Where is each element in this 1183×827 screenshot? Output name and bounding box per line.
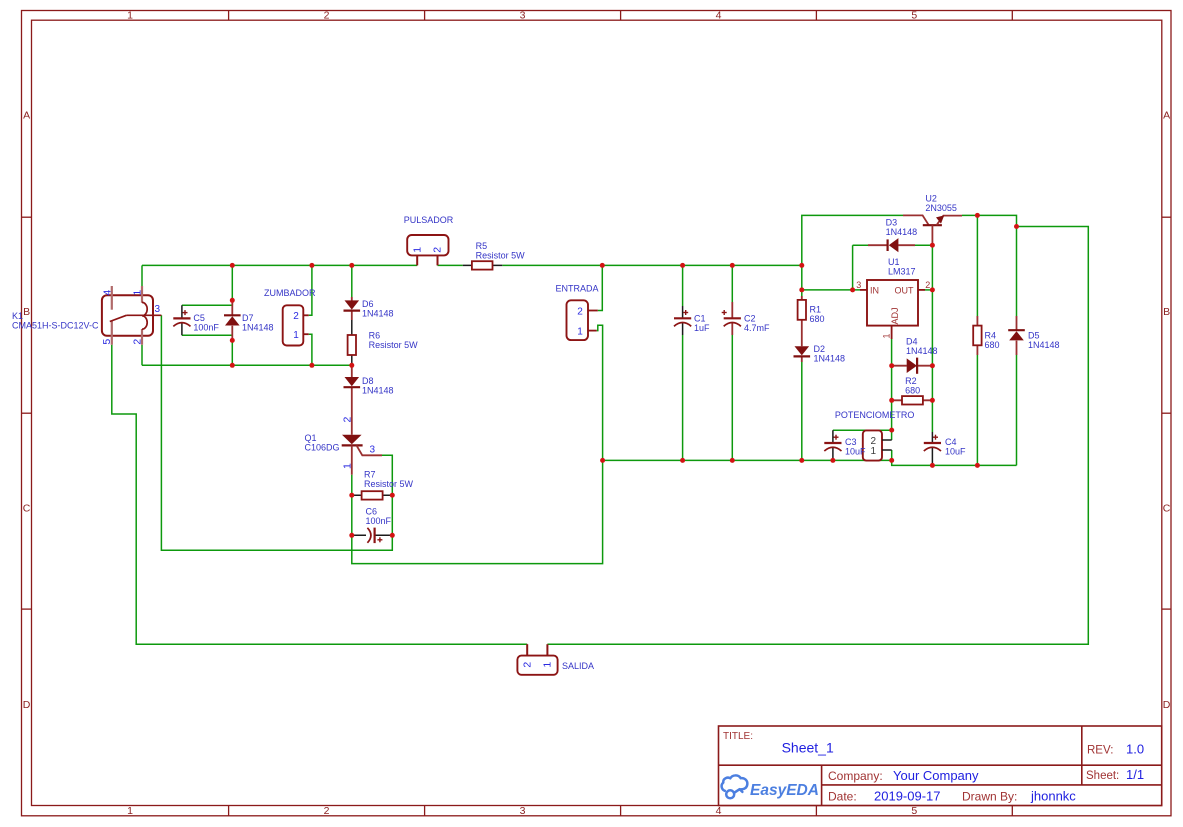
junction at 932.4,465.4: [930, 463, 935, 468]
svg-text:100nF: 100nF: [193, 323, 219, 333]
svg-text:4.7mF: 4.7mF: [744, 323, 770, 333]
svg-text:C6: C6: [366, 507, 378, 517]
svg-text:IN: IN: [870, 286, 879, 296]
resistor R1 labels: [810, 305, 825, 325]
svg-text:2N3055: 2N3055: [925, 203, 957, 213]
diode D7: [224, 315, 241, 325]
svg-text:B: B: [1163, 306, 1170, 318]
wire lower-right rail jog: [892, 460, 1017, 465]
connector SALIDA body: [517, 656, 557, 675]
diode D2 labels: [814, 344, 846, 364]
svg-text:ENTRADA: ENTRADA: [555, 283, 598, 293]
svg-text:2: 2: [293, 311, 299, 322]
svg-text:ADJ: ADJ: [890, 307, 900, 324]
resistor R4: [973, 326, 981, 346]
regulator U1 body: [867, 280, 918, 326]
svg-text:Date:: Date:: [828, 790, 857, 804]
capacitor C6 leads: [352, 534, 393, 536]
diode D5 labels: [1028, 331, 1060, 351]
svg-text:D: D: [1163, 699, 1171, 711]
junction at 932.4,365.7: [930, 363, 935, 368]
svg-text:R6: R6: [369, 331, 381, 341]
junction at 232.3,300.3: [230, 298, 235, 303]
wire U2 base node vertical: [931, 245, 933, 432]
svg-text:REV:: REV:: [1087, 745, 1113, 757]
svg-text:1N4148: 1N4148: [362, 309, 394, 319]
svg-text:R4: R4: [985, 331, 997, 341]
svg-text:Resistor 5W: Resistor 5W: [364, 479, 414, 489]
connector ENTRADA pin 1 stub: [588, 330, 597, 332]
svg-text:Your Company: Your Company: [893, 768, 979, 783]
svg-text:Q1: Q1: [305, 433, 317, 443]
svg-text:CMA51H-S-DC12V-C: CMA51H-S-DC12V-C: [12, 321, 99, 331]
connector ZUMBADOR pin 1 stub: [303, 333, 308, 335]
connector PULSADOR pin 2 stub: [437, 255, 439, 265]
svg-text:2: 2: [432, 247, 444, 253]
junction at 1016.5,226.5: [1014, 224, 1019, 229]
resistor R7 labels: [364, 470, 414, 490]
connector PULSADOR body: [407, 235, 448, 255]
transistor U2 base lead: [931, 225, 933, 245]
wire top rail left segment: [142, 264, 417, 266]
svg-text:1N4148: 1N4148: [886, 227, 918, 237]
capacitor C3 labels: [845, 437, 866, 457]
wire top rail between pulsador and R5: [438, 264, 463, 266]
wire relay pin1 drop: [141, 265, 143, 286]
junction at 891.7,460.4: [889, 458, 894, 463]
wire OUT pin stub: [925, 289, 932, 291]
wire zumbador pin2 riser: [309, 265, 312, 315]
svg-text:1: 1: [577, 326, 583, 337]
junction at 232.3,265.4: [230, 263, 235, 268]
svg-text:680: 680: [905, 385, 920, 395]
svg-text:2: 2: [577, 306, 583, 317]
svg-text:Resistor 5W: Resistor 5W: [369, 340, 419, 350]
wire D7 branch top: [231, 265, 233, 302]
transistor U2 emitter arrow: [936, 215, 944, 223]
svg-text:2: 2: [131, 339, 143, 345]
transistor U2 base bar: [923, 224, 942, 226]
svg-text:Sheet_1: Sheet_1: [782, 740, 834, 756]
wire upper rail to U2 collector: [802, 215, 903, 265]
svg-text:1N4148: 1N4148: [362, 386, 394, 396]
relay K1 pin 2: [141, 329, 143, 345]
svg-text:3: 3: [520, 10, 526, 22]
svg-text:C1: C1: [694, 314, 706, 324]
svg-text:4: 4: [101, 290, 113, 296]
svg-text:C4: C4: [945, 437, 957, 447]
junction at 602.6,460.4: [600, 458, 605, 463]
wire lower-left rail: [603, 459, 892, 461]
capacitor C3: [824, 435, 841, 451]
svg-text:5: 5: [911, 805, 917, 817]
svg-text:C5: C5: [193, 313, 205, 323]
svg-text:A: A: [1163, 110, 1170, 122]
wire C5 top link: [182, 300, 232, 305]
junction at 232.3,340.4: [230, 338, 235, 343]
resistor R1 leads: [801, 296, 803, 346]
svg-text:2: 2: [925, 280, 930, 290]
junction at 351.8,495.2: [349, 493, 354, 498]
thyristor Q1 triangle: [342, 435, 362, 444]
svg-text:D2: D2: [814, 344, 826, 354]
junction at 891.7,430.1: [889, 428, 894, 433]
diode D6 labels: [362, 299, 394, 319]
connector SALIDA pin 1 stub: [546, 644, 548, 655]
capacitor C2 leads: [731, 302, 733, 335]
connector ZUMBADOR body: [283, 305, 304, 345]
resistor R4 leads: [976, 316, 978, 355]
wire entrada pin2 riser: [598, 265, 603, 310]
diode D3: [888, 238, 899, 252]
diode D5 leads: [1016, 316, 1018, 355]
wire zumbador pin1 drop: [309, 334, 312, 365]
svg-text:1N4148: 1N4148: [242, 323, 274, 333]
junction at 732.3,460.4: [730, 458, 735, 463]
svg-text:D4: D4: [906, 336, 918, 346]
junction at 732.3,265.4: [730, 263, 735, 268]
junction at 977.4,215.4: [975, 213, 980, 218]
svg-text:1uF: 1uF: [694, 323, 710, 333]
svg-text:10uF: 10uF: [945, 447, 966, 457]
junction at 311.9,365.3: [309, 363, 314, 368]
svg-text:Company:: Company:: [828, 769, 883, 783]
junction at 801.8,265.4: [799, 263, 804, 268]
resistor R6: [348, 335, 356, 355]
svg-text:U2: U2: [925, 194, 937, 204]
svg-text:D8: D8: [362, 376, 374, 386]
regulator U1 labels: [888, 257, 916, 277]
resistor R6 leads: [351, 320, 353, 365]
svg-text:R7: R7: [364, 470, 376, 480]
svg-text:jhonnkc: jhonnkc: [1030, 789, 1076, 804]
diode D5: [1008, 330, 1025, 340]
junction at 351.8,265.4: [349, 263, 354, 268]
junction at 977.4,465.4: [975, 463, 980, 468]
wire C1 branch: [682, 265, 684, 460]
capacitor C5 leads: [181, 305, 183, 335]
svg-text:2: 2: [521, 662, 533, 668]
relay K1 switch contact: [110, 315, 127, 321]
resistor R7: [362, 491, 383, 499]
junction at 801.8,289.9: [799, 287, 804, 292]
resistor R7 leads: [352, 494, 393, 496]
junction at 392.3,495.2: [390, 493, 395, 498]
svg-text:Sheet:: Sheet:: [1086, 770, 1119, 782]
svg-text:C106DG: C106DG: [305, 443, 340, 453]
diode D8 leads: [351, 365, 353, 435]
svg-text:5: 5: [911, 10, 917, 22]
junction at 602.3,265.4: [600, 263, 605, 268]
wire IN node horizontal: [802, 289, 860, 291]
relay K1 labels: [12, 311, 99, 331]
svg-text:1: 1: [542, 662, 554, 668]
diode D4 leads: [892, 365, 933, 367]
regulator U1 pin 2 stub: [918, 289, 925, 291]
wire C2 branch: [731, 265, 733, 460]
capacitor C4 labels: [945, 437, 966, 457]
svg-text:POTENCIOMETRO: POTENCIOMETRO: [835, 410, 915, 420]
svg-text:Resistor 5W: Resistor 5W: [476, 251, 526, 261]
svg-text:LM317: LM317: [888, 266, 916, 276]
junction at 351.8,365.3: [349, 363, 354, 368]
svg-text:A: A: [23, 110, 30, 122]
svg-text:4: 4: [716, 10, 722, 22]
wire C3 top link: [833, 429, 892, 431]
svg-text:R5: R5: [476, 241, 488, 251]
svg-text:1: 1: [341, 463, 353, 469]
diode D6: [344, 300, 361, 310]
diode D3 labels: [886, 217, 918, 237]
diode D4: [907, 358, 917, 374]
svg-text:OUT: OUT: [895, 286, 915, 296]
svg-text:2: 2: [324, 10, 330, 22]
svg-text:3: 3: [155, 304, 161, 315]
thyristor Q1 cathode lead: [351, 445, 353, 474]
resistor R6 labels: [369, 331, 419, 351]
connector ENTRADA body: [567, 300, 589, 340]
svg-text:D6: D6: [362, 299, 374, 309]
svg-text:1: 1: [132, 290, 144, 296]
svg-text:D: D: [23, 699, 31, 711]
regulator U1 pin 1 stub: [891, 326, 893, 339]
diode D7 labels: [242, 313, 274, 333]
relay K1 body: [102, 295, 153, 336]
diode D4 labels: [906, 336, 938, 356]
wire R1 top and D2 bottom: [801, 265, 803, 460]
wire C5 bottom link: [182, 334, 232, 336]
svg-text:D7: D7: [242, 313, 254, 323]
svg-text:1: 1: [881, 333, 891, 338]
capacitor C3 leads: [832, 430, 834, 460]
junction at 932.4,400.3: [930, 398, 935, 403]
connector PULSADOR pin 1 stub: [416, 255, 418, 265]
connector POTENCIOMETRO body: [863, 430, 882, 460]
junction at 852.6,289.9: [850, 287, 855, 292]
wire top rail right segment: [502, 264, 802, 266]
svg-text:1: 1: [293, 330, 299, 341]
wire ADJ node vertical: [891, 339, 893, 460]
resistor R2: [902, 396, 923, 404]
svg-text:1.0: 1.0: [1126, 742, 1144, 757]
junction at 932.4,289.9: [930, 287, 935, 292]
svg-text:3: 3: [370, 444, 376, 455]
wire relay pin3 net to Q1 gate: [161, 315, 392, 550]
regulator U1 pin 3 stub: [860, 289, 867, 291]
thyristor Q1 gate: [357, 445, 383, 455]
junction at 832.9,460.4: [830, 458, 835, 463]
svg-text:C: C: [23, 503, 31, 515]
svg-text:10uF: 10uF: [845, 447, 866, 457]
wire relay pin2 drop: [141, 345, 143, 366]
diode D6 leads: [351, 297, 353, 320]
wire relay pin5 to SALIDA rail: [112, 345, 527, 644]
capacitor C4: [924, 435, 941, 451]
wire D7 branch bottom: [231, 338, 233, 365]
capacitor C4 leads: [931, 432, 933, 465]
junction at 682.6,265.4: [680, 263, 685, 268]
resistor R5: [472, 261, 493, 269]
svg-text:R1: R1: [810, 305, 822, 315]
wire right loop to SALIDA: [547, 227, 1088, 645]
svg-text:1/1: 1/1: [1126, 767, 1144, 782]
title block frame: [719, 726, 1162, 806]
svg-text:TITLE:: TITLE:: [723, 731, 753, 742]
wire second rail: [142, 364, 352, 366]
capacitor C1 labels: [694, 314, 710, 334]
svg-text:4: 4: [716, 805, 722, 817]
connector POTENCIOMETRO pin 1 stub: [882, 449, 892, 451]
svg-text:1: 1: [871, 446, 877, 457]
svg-text:1N4148: 1N4148: [1028, 340, 1060, 350]
junction at 392.3,535.3: [390, 533, 395, 538]
connector ENTRADA pin 2 stub: [588, 310, 598, 312]
svg-text:ZUMBADOR: ZUMBADOR: [264, 288, 316, 298]
svg-text:PULSADOR: PULSADOR: [404, 215, 454, 225]
svg-text:K1: K1: [12, 311, 23, 321]
svg-text:1: 1: [411, 247, 423, 253]
diode D7 leads: [231, 300, 233, 340]
capacitor C2: [722, 310, 741, 326]
connector ZUMBADOR pin 2 stub: [303, 314, 308, 316]
relay K1 pin 5: [111, 321, 113, 345]
connector SALIDA pin 2 stub: [526, 644, 528, 655]
wire U2 emitter rail: [962, 215, 1017, 316]
svg-text:1: 1: [127, 10, 133, 22]
diode D3 leads: [868, 244, 915, 246]
svg-text:C: C: [1163, 503, 1171, 515]
wire Q1 cathode to R7: [351, 475, 353, 496]
svg-text:100nF: 100nF: [366, 516, 392, 526]
svg-text:1: 1: [127, 805, 133, 817]
capacitor C1: [674, 310, 691, 326]
svg-text:2019-09-17: 2019-09-17: [874, 789, 941, 804]
transistor U2 collector lead: [903, 215, 929, 225]
svg-text:1N4148: 1N4148: [814, 354, 846, 364]
junction at 232.3,365.3: [230, 363, 235, 368]
svg-text:680: 680: [985, 340, 1000, 350]
junction at 891.7,365.7: [889, 363, 894, 368]
diode D2: [794, 346, 811, 356]
relay K1 coil: [142, 302, 147, 329]
relay K1 pin 3 line: [126, 314, 161, 316]
resistor R2 labels: [905, 376, 920, 395]
svg-text:C2: C2: [744, 314, 756, 324]
capacitor C5: [173, 310, 190, 326]
diode D8: [344, 377, 361, 387]
wire D3 left drop to IN: [853, 245, 868, 290]
relay K1 pin 1: [141, 286, 143, 303]
wire R7 to C6 left leg: [351, 495, 353, 535]
wire D6 top lead riser: [351, 265, 353, 297]
junction at 801.8,460.4: [799, 458, 804, 463]
capacitor C2 labels: [744, 314, 770, 334]
svg-text:1N4148: 1N4148: [906, 346, 938, 356]
resistor R5 leads: [463, 264, 503, 266]
wire entrada pin1 drop: [597, 325, 603, 460]
capacitor C5 labels: [193, 313, 219, 333]
wire C6 to ground run: [352, 460, 603, 563]
wire R4 branch: [976, 215, 978, 465]
capacitor C6: [367, 528, 382, 544]
svg-text:680: 680: [810, 314, 825, 324]
junction at 932.4,245.2: [930, 243, 935, 248]
svg-text:U1: U1: [888, 257, 900, 267]
svg-text:Drawn By:: Drawn By:: [962, 790, 1017, 804]
svg-text:3: 3: [520, 805, 526, 817]
relay K1 pin 4: [111, 286, 113, 310]
svg-text:5: 5: [101, 339, 113, 345]
diode D8 labels: [362, 376, 394, 396]
junction at 682.6,460.4: [680, 458, 685, 463]
thyristor Q1 cathode bar: [342, 444, 363, 446]
svg-text:SALIDA: SALIDA: [562, 661, 594, 671]
connector POTENCIOMETRO pin 2 stub: [882, 439, 892, 441]
svg-text:EasyEDA: EasyEDA: [750, 782, 819, 799]
svg-text:C3: C3: [845, 437, 857, 447]
EasyEDA logo cloud: [722, 775, 748, 798]
svg-text:2: 2: [324, 805, 330, 817]
diode D2 leads: [801, 357, 803, 362]
svg-text:D5: D5: [1028, 331, 1040, 341]
resistor R1: [798, 300, 806, 320]
resistor R2 leads: [892, 399, 933, 401]
wire D3 right to base node: [915, 244, 932, 246]
wire D5 bottom lead: [1016, 355, 1018, 465]
capacitor C1 leads: [682, 306, 684, 335]
resistor R4 labels: [985, 331, 1000, 351]
capacitor C6 labels: [366, 507, 392, 527]
svg-text:B: B: [23, 306, 30, 318]
resistor R5 labels: [476, 241, 526, 261]
svg-text:D3: D3: [886, 217, 898, 227]
junction at 311.9,265.4: [309, 263, 314, 268]
transistor U2 labels: [925, 194, 957, 214]
svg-text:2: 2: [341, 417, 353, 423]
junction at 891.7,400.3: [889, 398, 894, 403]
transistor U2 emitter lead: [937, 216, 963, 226]
thyristor Q1 labels: [305, 433, 340, 453]
svg-text:3: 3: [856, 280, 861, 290]
junction at 351.8,535.3: [349, 533, 354, 538]
